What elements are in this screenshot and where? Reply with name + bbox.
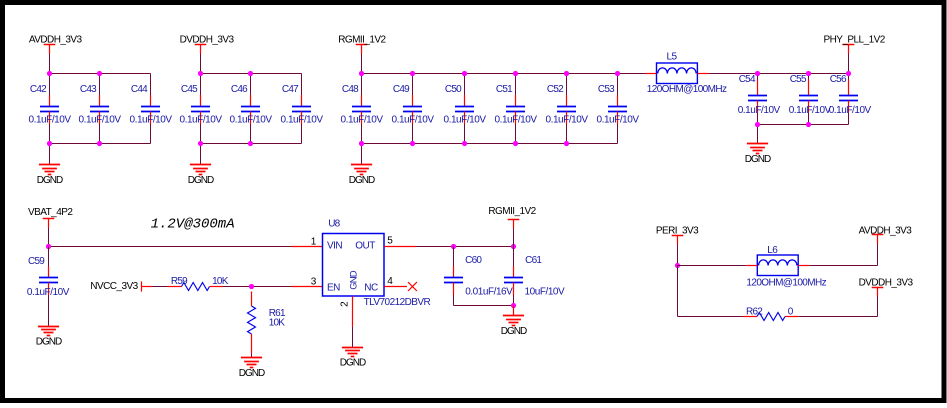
svg-text:DVDDH_3V3: DVDDH_3V3 bbox=[180, 34, 235, 45]
svg-text:1.2V@300mA: 1.2V@300mA bbox=[151, 216, 235, 232]
svg-text:0.1uF/10V: 0.1uF/10V bbox=[27, 287, 70, 298]
svg-text:C45: C45 bbox=[181, 84, 198, 95]
svg-text:0.1uF/10V: 0.1uF/10V bbox=[392, 114, 435, 125]
svg-text:R59: R59 bbox=[171, 276, 188, 287]
svg-text:C49: C49 bbox=[393, 84, 410, 95]
svg-text:DGND: DGND bbox=[188, 175, 214, 186]
svg-text:0.1uF/10V: 0.1uF/10V bbox=[230, 114, 273, 125]
svg-text:C60: C60 bbox=[465, 255, 482, 266]
svg-text:0.1uF/10V: 0.1uF/10V bbox=[597, 114, 640, 125]
svg-text:AVDDH_3V3: AVDDH_3V3 bbox=[859, 226, 913, 237]
svg-text:C42: C42 bbox=[30, 84, 47, 95]
svg-text:C54: C54 bbox=[739, 74, 756, 85]
svg-text:C53: C53 bbox=[598, 84, 615, 95]
svg-text:10uF/10V: 10uF/10V bbox=[525, 287, 566, 298]
svg-text:L5: L5 bbox=[667, 51, 678, 62]
svg-text:L6: L6 bbox=[767, 245, 778, 256]
svg-text:0.1uF/10V: 0.1uF/10V bbox=[79, 114, 122, 125]
svg-text:C59: C59 bbox=[28, 256, 45, 267]
svg-text:TLV70212DBVR: TLV70212DBVR bbox=[364, 297, 431, 308]
svg-text:GND: GND bbox=[349, 270, 360, 289]
svg-text:0.1uF/10V: 0.1uF/10V bbox=[444, 114, 487, 125]
svg-text:0.1uF/10V: 0.1uF/10V bbox=[341, 114, 384, 125]
svg-text:10K: 10K bbox=[269, 318, 286, 329]
svg-text:0.1uF/10V: 0.1uF/10V bbox=[281, 114, 324, 125]
svg-text:DVDDH_3V3: DVDDH_3V3 bbox=[859, 278, 914, 289]
svg-text:0.1uF/10V: 0.1uF/10V bbox=[130, 114, 173, 125]
svg-text:0.1uF/10V: 0.1uF/10V bbox=[789, 105, 832, 116]
svg-text:DGND: DGND bbox=[340, 357, 366, 368]
svg-text:C55: C55 bbox=[790, 74, 807, 85]
svg-text:OUT: OUT bbox=[355, 240, 375, 251]
svg-text:PHY_PLL_1V2: PHY_PLL_1V2 bbox=[824, 34, 886, 45]
svg-text:AVDDH_3V3: AVDDH_3V3 bbox=[29, 34, 83, 45]
svg-text:C61: C61 bbox=[525, 255, 542, 266]
svg-text:DGND: DGND bbox=[239, 368, 265, 379]
svg-text:C44: C44 bbox=[131, 84, 148, 95]
svg-text:NC: NC bbox=[364, 282, 378, 293]
svg-text:DGND: DGND bbox=[37, 175, 63, 186]
svg-text:10K: 10K bbox=[212, 276, 229, 287]
svg-text:0.1uF/10V: 0.1uF/10V bbox=[29, 114, 72, 125]
svg-text:120OHM@100MHz: 120OHM@100MHz bbox=[746, 278, 826, 289]
svg-text:2: 2 bbox=[339, 301, 350, 307]
svg-text:VBAT_4P2: VBAT_4P2 bbox=[28, 207, 73, 218]
svg-text:EN: EN bbox=[327, 282, 340, 293]
svg-text:C51: C51 bbox=[496, 84, 513, 95]
svg-text:0.01uF/16V: 0.01uF/16V bbox=[465, 287, 513, 298]
svg-text:0.1uF/10V: 0.1uF/10V bbox=[495, 114, 538, 125]
svg-text:DGND: DGND bbox=[745, 154, 771, 165]
svg-text:RGMII_1V2: RGMII_1V2 bbox=[338, 34, 386, 45]
svg-text:C50: C50 bbox=[445, 84, 462, 95]
svg-text:DGND: DGND bbox=[501, 326, 527, 337]
svg-text:C47: C47 bbox=[282, 84, 299, 95]
svg-text:C46: C46 bbox=[231, 84, 248, 95]
svg-text:NVCC_3V3: NVCC_3V3 bbox=[90, 281, 138, 292]
svg-text:0.1uF/10V: 0.1uF/10V bbox=[829, 105, 872, 116]
svg-text:0.1uF/10V: 0.1uF/10V bbox=[546, 114, 589, 125]
svg-text:C48: C48 bbox=[342, 84, 359, 95]
svg-text:VIN: VIN bbox=[327, 240, 342, 251]
svg-text:R62: R62 bbox=[746, 306, 763, 317]
svg-text:U8: U8 bbox=[328, 219, 340, 230]
svg-text:RGMII_1V2: RGMII_1V2 bbox=[488, 206, 536, 217]
svg-text:DGND: DGND bbox=[349, 175, 375, 186]
svg-text:0.1uF/10V: 0.1uF/10V bbox=[738, 105, 781, 116]
svg-text:120OHM@100MHz: 120OHM@100MHz bbox=[647, 84, 727, 95]
svg-text:0.1uF/10V: 0.1uF/10V bbox=[180, 114, 223, 125]
svg-text:C43: C43 bbox=[80, 84, 97, 95]
svg-text:C56: C56 bbox=[830, 74, 847, 85]
svg-text:DGND: DGND bbox=[36, 336, 62, 347]
svg-text:C52: C52 bbox=[547, 84, 564, 95]
